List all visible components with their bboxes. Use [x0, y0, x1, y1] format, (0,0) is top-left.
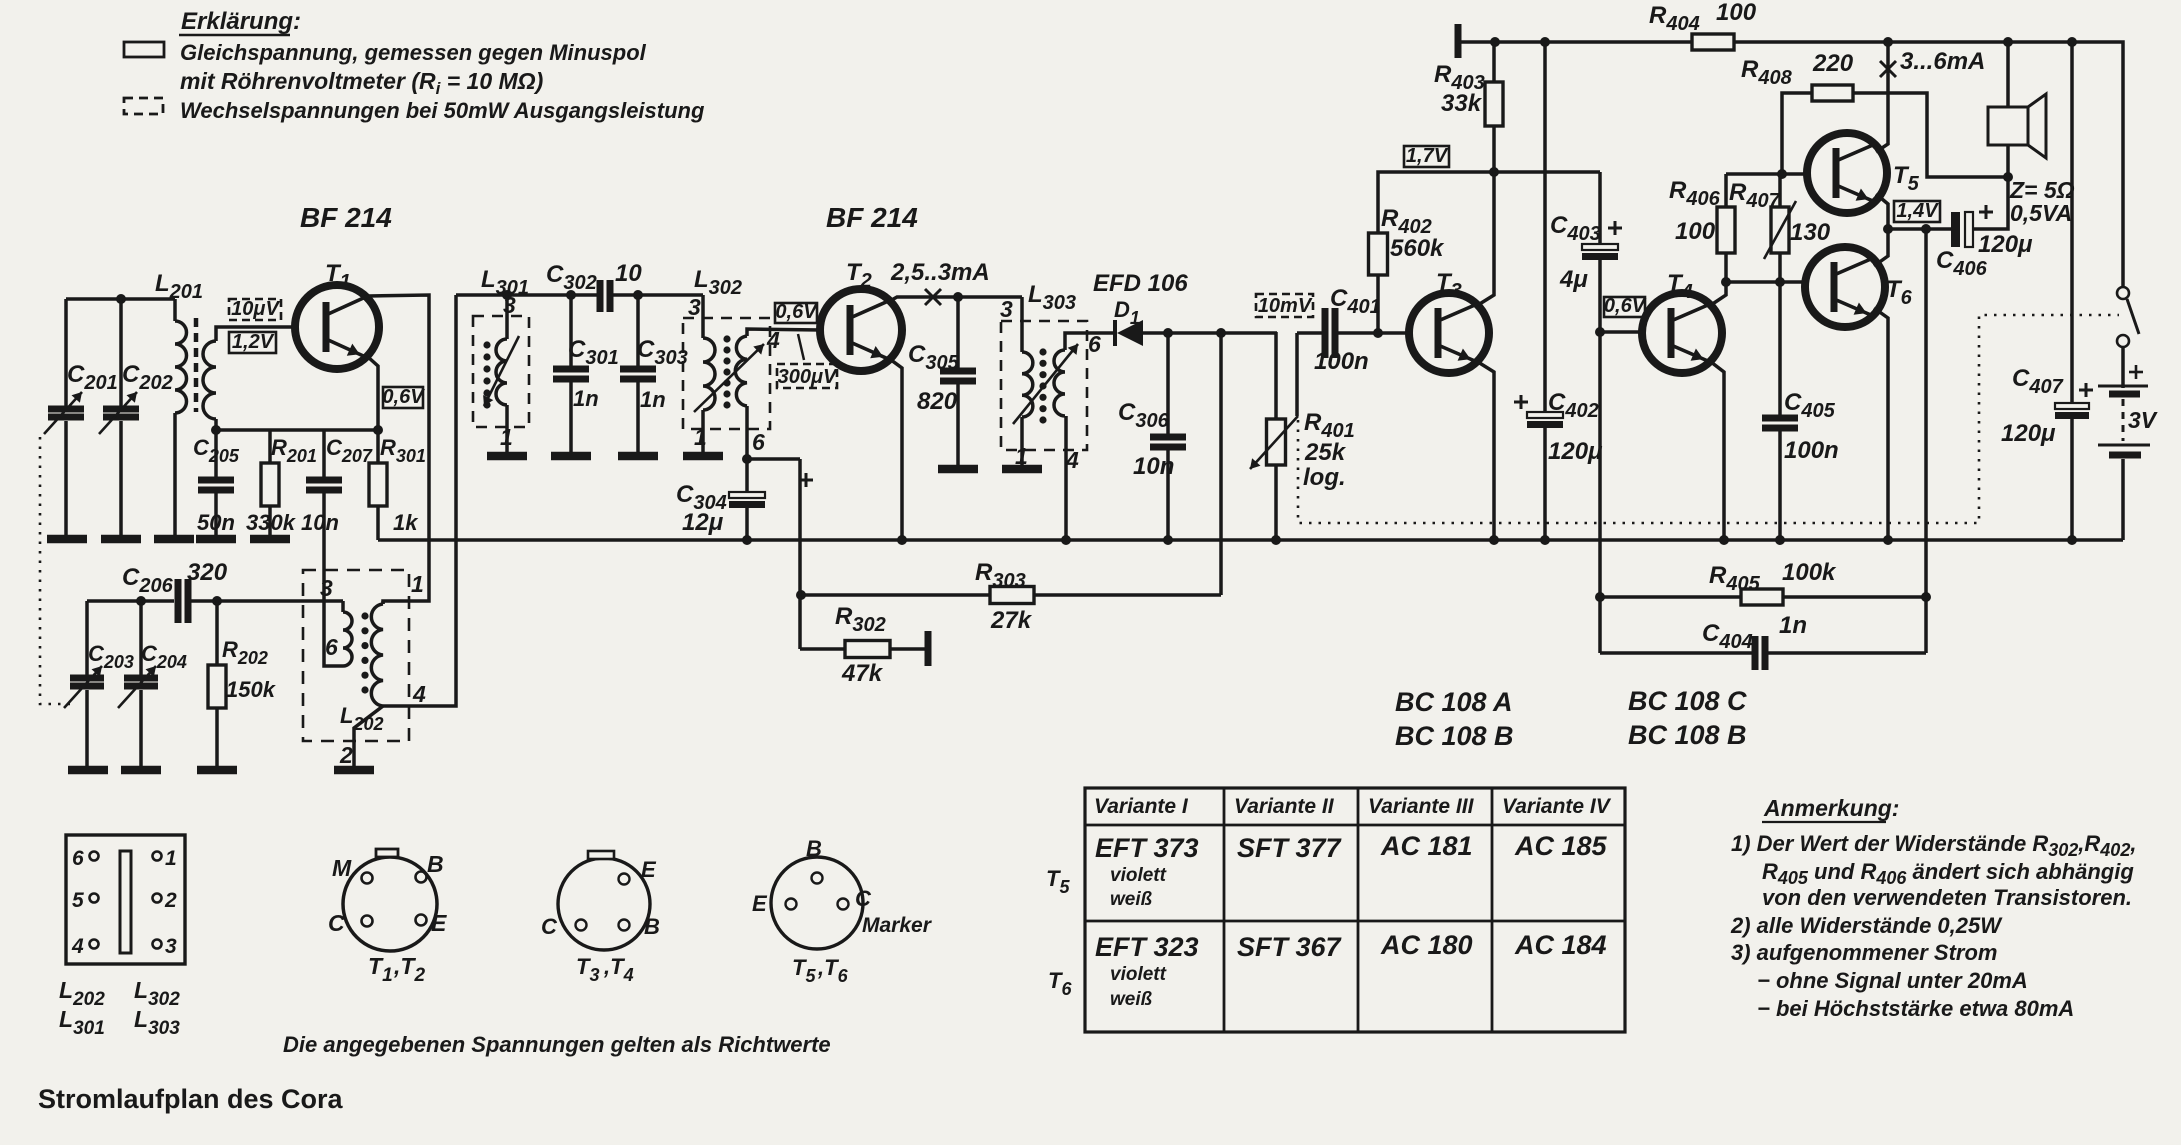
node C405 junction [1775, 277, 1785, 287]
capacitor C402 [1514, 389, 1603, 540]
wire T5 base rail [1726, 172, 1808, 176]
resistor R406 [1669, 174, 1735, 282]
svg-text:12μ: 12μ [682, 509, 724, 536]
wire T6 emitter [1874, 308, 1888, 540]
svg-text:EFT 373: EFT 373 [1095, 833, 1199, 863]
svg-text:mit Röhrenvoltmeter (Ri = 10 M: mit Röhrenvoltmeter (Ri = 10 MΩ) [180, 68, 543, 98]
svg-text:1: 1 [411, 571, 424, 597]
meter mark T2 [925, 289, 941, 305]
resistor R405 [1600, 559, 1926, 605]
node T3 emitter bus [1489, 535, 1499, 545]
ground R202 [197, 766, 237, 775]
svg-text:1,7V: 1,7V [1406, 145, 1449, 167]
legend dashed box (AC voltage symbol) [124, 98, 163, 114]
svg-text:B: B [644, 914, 660, 939]
speaker LS [1988, 42, 2075, 226]
svg-text:AC 181: AC 181 [1380, 831, 1473, 861]
label BC 108 C/B [1628, 686, 1747, 750]
svg-text:Variante I: Variante I [1094, 795, 1189, 818]
svg-text:6: 6 [752, 429, 765, 455]
svg-text:Anmerkung:: Anmerkung: [1763, 795, 1899, 821]
tuning gang dotted link [40, 437, 76, 704]
ground C203 [68, 766, 108, 775]
svg-text:3: 3 [503, 292, 516, 318]
label 10uV dashed box [229, 299, 281, 320]
resistor R404 [1649, 0, 1757, 50]
terminal battery plus rail [1455, 24, 1462, 58]
table row T5 [1095, 831, 1608, 910]
svg-text:330k: 330k [246, 510, 297, 535]
diode D1 [1093, 270, 1188, 346]
svg-text:BC 108 B: BC 108 B [1628, 720, 1747, 750]
wire 1.7V rail [1378, 172, 1600, 233]
leader 300uV [798, 334, 804, 360]
wire L303 pin4 [1064, 416, 1068, 540]
transistor T1 [295, 260, 379, 369]
table row T6 [1095, 930, 1607, 1010]
svg-text:Marker: Marker [862, 914, 933, 937]
wire main bottom bus [378, 538, 2123, 542]
svg-text:6: 6 [325, 634, 338, 660]
wire R401 wiper [1295, 333, 1299, 416]
svg-text:B: B [427, 851, 444, 877]
transistor T2 [820, 259, 902, 371]
svg-text:2: 2 [339, 742, 353, 768]
capacitor C302 (series) [546, 260, 642, 312]
svg-text:log.: log. [1303, 464, 1346, 491]
node R303 left [796, 590, 806, 600]
node R401 bus [1271, 535, 1281, 545]
node T5 collector top [1883, 37, 1893, 47]
node AGC takeoff [1216, 328, 1226, 338]
svg-text:6: 6 [72, 847, 84, 870]
wire feedback right vertical [1924, 229, 1928, 653]
wire driver base rail [1726, 280, 1806, 284]
wire T5 emitter [1876, 194, 1888, 229]
svg-text:weiß: weiß [1110, 989, 1153, 1010]
svg-text:AC 180: AC 180 [1380, 930, 1473, 960]
wire T3 base [1378, 331, 1410, 335]
node R403 top [1490, 37, 1500, 47]
wire L202 pin2 [354, 706, 383, 766]
svg-text:von den verwendeten Transistor: von den verwendeten Transistoren. [1762, 885, 2132, 910]
capacitor C303 [620, 295, 688, 452]
node C303 top [633, 290, 643, 300]
node T4 base [1595, 327, 1605, 337]
node C301 top [566, 290, 576, 300]
svg-text:3: 3 [165, 935, 177, 958]
inductor L301 [481, 266, 529, 452]
wire T1 collector [369, 295, 429, 604]
svg-text:50n: 50n [197, 510, 235, 535]
svg-text:BF 214: BF 214 [300, 202, 392, 233]
node output midpoint [1883, 224, 1893, 234]
svg-text:1k: 1k [393, 510, 419, 535]
inductor L201 primary [155, 270, 203, 535]
resistor R403 [1434, 42, 1503, 172]
capacitor C305 [908, 297, 976, 465]
svg-text:1n: 1n [640, 387, 666, 412]
transistor T3 [1409, 269, 1489, 373]
switch S1 [2117, 287, 2139, 388]
svg-text:100: 100 [1675, 218, 1716, 245]
transistor T6 [1805, 247, 1913, 327]
wire L303 pin6 to D1 [1065, 333, 1115, 350]
svg-text:1: 1 [694, 424, 707, 450]
ground L303 pin1 [1002, 465, 1042, 474]
label 1.4V box [1894, 201, 1940, 222]
svg-text:10n: 10n [1133, 453, 1174, 480]
svg-text:1: 1 [500, 424, 513, 450]
dotted board outline [1298, 315, 2119, 523]
resistor R402 [1369, 205, 1446, 333]
resistor R301 [369, 430, 426, 540]
ground C303 [618, 452, 658, 461]
resistor R407 (NTC) [1729, 174, 1831, 282]
svg-text:2: 2 [164, 889, 177, 912]
node C305 top [953, 292, 963, 302]
node C407 top [2067, 37, 2077, 47]
capacitor C407 [2001, 42, 2093, 540]
capacitor C306 [1118, 333, 1186, 540]
wire emitter bias rail [216, 428, 378, 432]
inductor L202 dashed box [303, 570, 409, 741]
node feedback tap [1921, 224, 1931, 234]
node R408 tap [1777, 169, 1787, 179]
svg-text:100n: 100n [1784, 437, 1839, 464]
resistor R303 [801, 559, 1221, 634]
wire top bus right [1734, 42, 2123, 287]
svg-text:220: 220 [1812, 50, 1854, 77]
node R405 right [1921, 592, 1931, 602]
table variants grid [1085, 788, 1625, 1032]
terminal R302 [925, 631, 932, 666]
node C402 bus [1540, 535, 1550, 545]
wire T4 base [1600, 330, 1643, 334]
svg-text:120μ: 120μ [1548, 438, 1603, 465]
svg-text:BC 108 B: BC 108 B [1395, 721, 1514, 751]
capacitor C401 [1297, 285, 1381, 375]
capacitor C202 [99, 299, 173, 535]
transistor T5 [1807, 133, 1920, 213]
battery 3V [2098, 365, 2158, 540]
resistor R302 [800, 603, 928, 687]
node R202 junction [212, 596, 222, 606]
svg-text:1n: 1n [573, 386, 599, 411]
svg-text:10mV: 10mV [1258, 295, 1313, 317]
wire IF1 top [456, 293, 597, 297]
svg-text:150k: 150k [226, 677, 277, 702]
svg-text:100n: 100n [1314, 348, 1369, 375]
legend heading Erklärung [179, 8, 301, 35]
capacitor C405 [1762, 282, 1839, 540]
svg-text:3V: 3V [2128, 407, 2158, 433]
svg-text:560k: 560k [1390, 235, 1445, 262]
svg-text:− ohne Signal unter 20mA: − ohne Signal unter 20mA [1757, 968, 2028, 993]
node T3 base [1373, 328, 1383, 338]
node T4 collector junction [1721, 277, 1731, 287]
svg-text:120μ: 120μ [2001, 420, 2056, 447]
svg-text:1: 1 [1015, 443, 1028, 469]
svg-text:0,6V: 0,6V [1604, 295, 1647, 317]
svg-text:3: 3 [688, 294, 701, 320]
label BC 108 A/B [1395, 687, 1514, 751]
svg-text:SFT 377: SFT 377 [1237, 833, 1343, 863]
svg-text:3: 3 [1000, 296, 1013, 322]
node antenna junction [116, 294, 126, 304]
remarks heading [1762, 795, 1899, 822]
wire T4 collector [1711, 282, 1726, 305]
ground C301 [551, 452, 591, 461]
node speaker bottom [2003, 172, 2013, 182]
node L303 pin4 bus [1061, 535, 1071, 545]
label C206 [122, 559, 228, 597]
label 300uV dashed box [777, 364, 837, 388]
wire T4 emitter [1711, 362, 1724, 540]
svg-text:violett: violett [1110, 865, 1167, 886]
svg-text:SFT 367: SFT 367 [1237, 932, 1343, 962]
ground C204 [121, 766, 161, 775]
capacitor C204 [118, 601, 187, 766]
label 10mV dashed box [1256, 294, 1313, 317]
svg-text:4: 4 [412, 681, 426, 707]
svg-text:M: M [332, 855, 352, 881]
capacitor C404 [1600, 612, 1926, 670]
svg-text:33k: 33k [1441, 90, 1483, 117]
node L301 top [502, 290, 512, 300]
table header [1094, 795, 1612, 818]
wire L302pin6 down [798, 459, 802, 649]
svg-text:weiß: weiß [1110, 889, 1153, 910]
wire detector output [1143, 331, 1277, 335]
pinout coil labels [59, 977, 180, 1039]
svg-text:10μV: 10μV [231, 298, 280, 320]
inductor L201 core [194, 318, 199, 412]
wire C302 to L302 [613, 293, 703, 297]
svg-text:C: C [541, 914, 558, 939]
node C306 top [1163, 328, 1173, 338]
label 0.6V box T4 [1604, 297, 1645, 317]
svg-text:25k: 25k [1304, 439, 1347, 466]
svg-text:1: 1 [165, 847, 177, 870]
svg-text:C: C [328, 910, 345, 936]
svg-text:820: 820 [917, 388, 958, 415]
wire L302 pin4 to T2 base [747, 329, 821, 336]
wire oscillator tank top [87, 599, 174, 603]
svg-text:130: 130 [1790, 219, 1831, 246]
legend solid box (DC voltage symbol) [124, 42, 164, 57]
wire AGC vertical [1219, 333, 1223, 595]
label 1.7V box [1404, 146, 1449, 167]
capacitor C406 [1936, 177, 2033, 280]
wire feedback left vertical [1598, 332, 1602, 653]
wire antenna top [66, 297, 175, 301]
svg-text:E: E [641, 857, 657, 882]
svg-text:Erklärung:: Erklärung: [181, 8, 301, 35]
svg-text:BF 214: BF 214 [826, 202, 918, 233]
pinout T1 T2 [328, 849, 447, 986]
svg-text:4μ: 4μ [1559, 266, 1588, 293]
meter mark T5 [1880, 61, 1896, 77]
ground C202 [101, 535, 141, 544]
svg-text:Variante III: Variante III [1368, 795, 1475, 818]
svg-text:1,4V: 1,4V [1896, 200, 1939, 222]
capacitor C203 [64, 601, 134, 766]
label 1.2V box [229, 332, 276, 353]
label 0.6V box T2 [775, 303, 817, 323]
svg-text:2) alle Widerstände 0,25W: 2) alle Widerstände 0,25W [1730, 913, 2003, 938]
svg-text:Variante IV: Variante IV [1502, 795, 1612, 818]
capacitor C206 (series) [175, 579, 182, 623]
svg-text:320: 320 [187, 559, 228, 586]
node L302 pin6 [742, 454, 752, 464]
svg-text:B: B [806, 836, 822, 861]
wire L202 pin1 [381, 601, 385, 604]
node R403 bottom [1489, 167, 1499, 177]
node speaker top [2003, 37, 2013, 47]
svg-text:10: 10 [615, 260, 642, 287]
wire T2 emitter [887, 357, 902, 540]
node C405 bus [1775, 535, 1785, 545]
node C407 bus [2067, 535, 2077, 545]
svg-text:3...6mA: 3...6mA [1900, 48, 1985, 75]
svg-text:Variante II: Variante II [1234, 795, 1335, 818]
svg-text:120μ: 120μ [1978, 231, 2033, 258]
svg-text:5: 5 [72, 889, 84, 912]
svg-text:R405 und R406 ändert sich abhä: R405 und R406 ändert sich abhängig [1762, 859, 2134, 888]
ground R201 [250, 535, 290, 544]
svg-text:100k: 100k [1782, 559, 1837, 586]
wire L302 pin6 [747, 406, 800, 459]
resistor R202 [208, 601, 277, 766]
ground C305 [938, 465, 978, 474]
ground L301 [487, 452, 527, 461]
wire T6 collector [1874, 229, 1888, 266]
svg-text:Wechselspannungen bei 50mW Aus: Wechselspannungen bei 50mW Ausgangsleist… [180, 98, 705, 123]
inductor L301 dashed box [473, 316, 529, 427]
capacitor C205 [193, 430, 240, 535]
svg-text:E: E [752, 891, 768, 916]
wire T3 emitter [1478, 362, 1494, 540]
svg-text:Die angegebenen Spannungen gel: Die angegebenen Spannungen gelten als Ri… [283, 1032, 831, 1057]
svg-text:BC 108 C: BC 108 C [1628, 686, 1747, 716]
svg-text:EFD 106: EFD 106 [1093, 270, 1188, 297]
ground L201 [154, 535, 194, 544]
potentiometer R401 [1250, 332, 1355, 540]
svg-text:47k: 47k [841, 660, 884, 687]
svg-text:2,5..3mA: 2,5..3mA [890, 259, 990, 286]
node T6 emitter bus [1883, 535, 1893, 545]
label 0.6V box T1 [383, 387, 423, 408]
svg-text:0,6V: 0,6V [775, 301, 818, 323]
wire T1 emitter [368, 357, 378, 430]
wire T5 collector [1876, 42, 1888, 152]
capacitor C403 [1550, 172, 1622, 332]
svg-text:3) aufgenommener Strom: 3) aufgenommener Strom [1731, 940, 1998, 965]
svg-text:AC 184: AC 184 [1514, 930, 1607, 960]
node R405 left [1595, 592, 1605, 602]
capacitor C207 [301, 430, 373, 666]
node T1 emitter [373, 425, 383, 435]
table side labels [1046, 866, 1072, 999]
svg-text:− bei Höchststärke etwa 80mA: − bei Höchststärke etwa 80mA [1757, 996, 2074, 1021]
wire supply vertical [1543, 42, 1547, 412]
resistor R201 [246, 430, 317, 535]
inductor L302 [694, 266, 764, 452]
wire top bus left [1458, 40, 1692, 44]
svg-text:violett: violett [1110, 964, 1167, 985]
wire T2 collector [888, 297, 1022, 302]
svg-text:0,6V: 0,6V [382, 386, 425, 408]
svg-text:EFT 323: EFT 323 [1095, 932, 1199, 962]
inductor L202 right winding [371, 604, 383, 706]
svg-text:10n: 10n [301, 510, 339, 535]
inductor L303 dashed box [1001, 321, 1087, 450]
transistor T4 [1642, 270, 1722, 373]
capacitor C304 [676, 459, 813, 540]
node C205 top [211, 425, 221, 435]
svg-text:4: 4 [71, 935, 84, 958]
svg-text:300μV: 300μV [778, 366, 838, 388]
inductor L302 dashed box [683, 318, 770, 429]
inductor L202 dot column [361, 612, 368, 619]
ground L302 pin1 [683, 452, 723, 461]
node T2 emitter bus [897, 535, 907, 545]
pinout T3 T4 [541, 851, 660, 985]
node C204 junction [136, 596, 146, 606]
wire T3 collector [1478, 172, 1494, 305]
svg-text:1n: 1n [1779, 612, 1807, 639]
svg-text:100: 100 [1716, 0, 1757, 26]
node C306 bus [1163, 535, 1173, 545]
capacitor C201 [44, 299, 118, 535]
svg-text:Gleichspannung, gemessen gegen: Gleichspannung, gemessen gegen Minuspol [180, 40, 647, 65]
svg-text:Stromlaufplan des Cora: Stromlaufplan des Cora [38, 1084, 344, 1114]
inductor L202 left winding [343, 601, 352, 666]
pinout T5 T6 [752, 836, 933, 986]
svg-text:0,5VA: 0,5VA [2010, 200, 2072, 226]
inductor L303 [1013, 281, 1078, 465]
node C402 top [1540, 37, 1550, 47]
svg-text:27k: 27k [990, 607, 1033, 634]
ground C201 [47, 535, 87, 544]
svg-text:6: 6 [1088, 331, 1101, 357]
svg-text:3: 3 [320, 575, 333, 601]
capacitor C301 [553, 295, 619, 452]
node T4 emitter bus [1719, 535, 1729, 545]
svg-text:AC 185: AC 185 [1514, 831, 1608, 861]
ground L202 pin2 [334, 766, 374, 775]
node C304 bus [742, 535, 752, 545]
svg-text:E: E [431, 910, 447, 936]
inductor L201 secondary [203, 327, 295, 430]
svg-text:C: C [855, 886, 872, 911]
svg-text:1,2V: 1,2V [232, 331, 275, 353]
pinout coil connector box [66, 835, 185, 964]
wire C206 to L202 pin3 [190, 599, 343, 603]
ground C205 [196, 535, 236, 544]
resistor R408 [1741, 50, 2008, 177]
wire L202 pin4 [383, 295, 456, 706]
svg-text:BC 108 A: BC 108 A [1395, 687, 1513, 717]
wire 1.4V rail [1888, 227, 1951, 231]
